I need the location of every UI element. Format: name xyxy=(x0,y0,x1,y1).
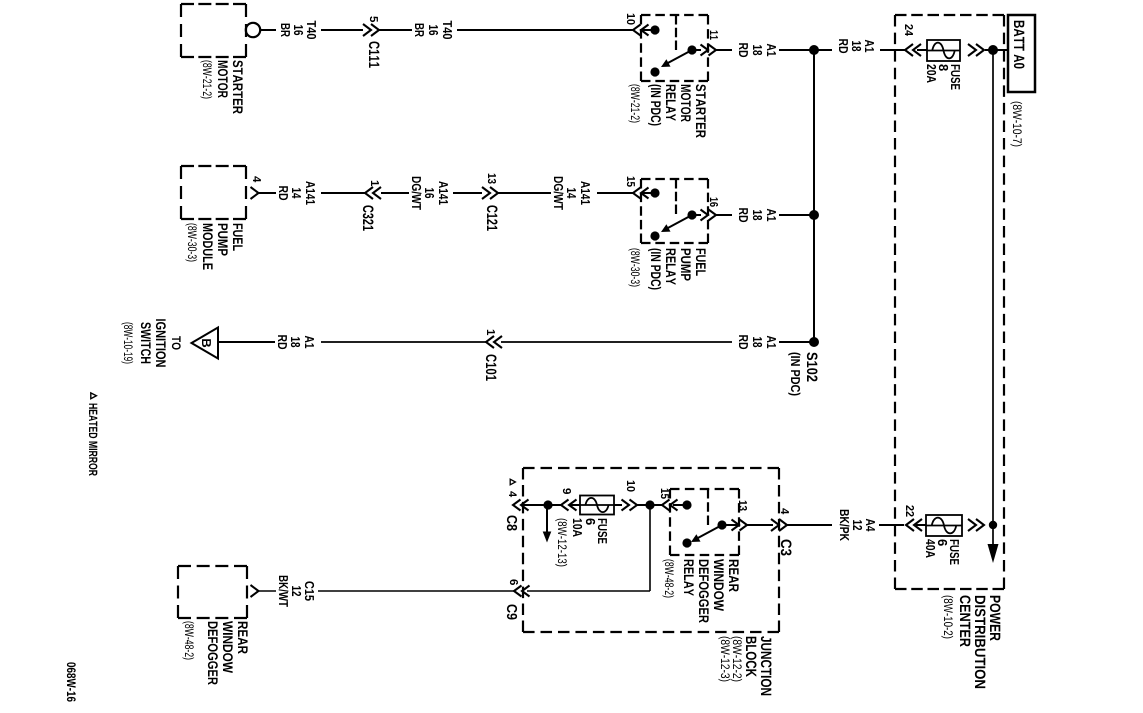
starter relay pin 10 chevron xyxy=(633,25,649,36)
fuel relay common node xyxy=(687,210,696,219)
defogger relay contact node pin 15 xyxy=(673,500,692,509)
power distribution center box (8W-10-2) xyxy=(895,15,1004,589)
starter relay pin 11 chevron xyxy=(701,45,717,56)
splice S102 node xyxy=(809,45,819,55)
label pin 4 fuel pump xyxy=(253,176,261,182)
wire BATT A0 stub to bus xyxy=(985,49,1007,51)
label wire T40 16 BR (mid) xyxy=(415,21,452,39)
connector C8 pin 4 chevron xyxy=(513,500,529,511)
starter relay contact node pin 10 xyxy=(641,25,660,34)
rear window defogger pin chevron xyxy=(251,585,259,597)
label C321 xyxy=(363,205,374,230)
starter motor box xyxy=(181,4,246,57)
label JUNCTION BLOCK xyxy=(718,636,771,695)
defogger relay pin 13 chevron xyxy=(732,520,748,531)
wire C111 to label T40 lower xyxy=(321,29,363,31)
label pin 1 of C101 xyxy=(487,330,495,335)
wire fuse 8 out of PDC xyxy=(880,49,905,51)
label pin 10 xyxy=(627,14,635,25)
wire label to C101 xyxy=(501,341,732,343)
wire fuse 6 to chevron 22 xyxy=(916,524,926,526)
node junction block splice xyxy=(645,500,654,509)
starter relay contact node right xyxy=(650,67,659,76)
label pin 16 xyxy=(710,198,718,207)
label STARTER MOTOR RELAY (IN PDC) (8W-21-2) xyxy=(628,84,705,138)
connector chevron 10 in JB xyxy=(622,500,638,511)
label wire A4 12 BK/PK xyxy=(840,510,875,541)
wire label to starter motor terminal xyxy=(260,29,276,31)
label FUSE 8 20A xyxy=(927,64,960,89)
bus arrowhead xyxy=(988,544,999,563)
battery feed BATT A0 box xyxy=(1008,15,1035,92)
label wire A141 16 DG/WT xyxy=(412,177,448,210)
label pin 1 of C321 xyxy=(371,181,379,186)
wire S102 bus xyxy=(813,50,815,342)
junction block box (8W-12-2)(8W-12-3) xyxy=(523,468,779,632)
label pin 22 xyxy=(906,505,914,516)
wire BATT A0 bus xyxy=(992,50,994,548)
node bus junction at fuse 6 xyxy=(989,521,997,529)
label pin 4 of C3 xyxy=(781,508,789,514)
heated mirror branch wire xyxy=(546,505,548,532)
node bus junction at fuse 8 xyxy=(988,45,998,55)
label FUEL PUMP MODULE (8W-30-3) xyxy=(185,224,242,270)
label STARTER MOTOR (8W-21-2) xyxy=(200,60,242,114)
connector pin 24 chevron xyxy=(905,44,921,56)
fuel pump relay box xyxy=(641,179,708,243)
label POWER DISTRIBUTION CENTER xyxy=(941,596,1000,689)
defogger relay contact node right xyxy=(682,538,691,547)
wire S102 to fuel label xyxy=(779,214,814,216)
wire chevron 9 to C8 node xyxy=(548,504,561,506)
node S102 ignition branch xyxy=(809,337,819,347)
legend triangle HEATED MIRROR xyxy=(89,393,98,476)
connector C101 chevron xyxy=(486,336,502,348)
wire C8 node to C8 xyxy=(521,504,548,506)
label wire C15 12 BK/WT xyxy=(279,576,314,607)
fuse F8 output chevron xyxy=(968,44,984,56)
wire label to fuel pump module pin xyxy=(259,192,276,194)
node C8 branch splice xyxy=(543,500,552,509)
label C111 xyxy=(369,42,380,68)
label pin 15 fuel relay xyxy=(627,177,635,187)
fuel relay pin 16 chevron xyxy=(701,210,717,221)
label wire A141 14 RD xyxy=(279,181,315,205)
fuel relay contact node pin 15 xyxy=(641,188,660,197)
label C8 xyxy=(507,516,517,531)
label chevron 9 xyxy=(563,488,571,494)
fuel pump module pin 4 chevron xyxy=(251,187,259,199)
label pin 5 of C111 xyxy=(370,16,378,22)
connector C3 pin 4 chevron xyxy=(771,519,787,531)
node S102 fuel branch xyxy=(809,210,819,220)
label sheet number 068W-16 xyxy=(67,662,76,701)
wire fuse JB to chevron 9 xyxy=(569,504,580,506)
starter relay common node xyxy=(687,45,696,54)
fuse F6 junction block (FUSE 6 10A) xyxy=(580,496,614,515)
wire fuse 8 to chevron 24 xyxy=(917,49,927,51)
label wire A1 18 RD starter branch xyxy=(739,43,776,57)
wire A4 to C3 xyxy=(787,524,832,526)
wire C9 down to label C15 xyxy=(318,590,514,592)
wire pin 16 up to label xyxy=(716,214,732,216)
defogger relay blade xyxy=(691,525,722,542)
label FUEL PUMP RELAY (IN PDC) (8W-30-3) xyxy=(628,249,705,290)
label pin 24 xyxy=(905,24,913,36)
label wire T40 16 BR (lower) xyxy=(281,21,316,39)
label FUSE 6 40A xyxy=(926,539,959,564)
connector pin 22 chevron xyxy=(906,519,922,531)
fuel relay pin 15 chevron xyxy=(633,188,649,199)
label pin 13 xyxy=(739,501,747,511)
defogger relay common node xyxy=(717,520,739,529)
defogger relay internal divider xyxy=(707,489,709,525)
label S102 (IN PDC) xyxy=(788,352,817,395)
wire pin 11 into relay xyxy=(692,49,701,51)
wire pin 16 into relay xyxy=(692,214,701,216)
wire junction splice to C9 riser xyxy=(527,505,650,591)
wire label to C121 xyxy=(498,192,551,194)
wire pin 15 to junction node xyxy=(650,504,662,506)
fuel relay contact node right xyxy=(650,231,659,240)
wire C321 to label A141 14 RD xyxy=(321,192,365,194)
fuel pump relay internal divider xyxy=(675,179,677,214)
wire C101 to label xyxy=(321,341,486,343)
label pin 15 xyxy=(661,489,669,499)
wire label to triangle B xyxy=(218,341,275,343)
label REAR WINDOW DEFOGGER RELAY (8W-48-2) xyxy=(662,559,738,623)
wire label to C111 xyxy=(379,29,412,31)
off-page triangle B to ignition switch xyxy=(192,328,219,359)
label C9 xyxy=(507,605,517,620)
label chevron 10 xyxy=(627,481,635,492)
wire pin 15 down to label A141 14 DG/WT xyxy=(597,192,633,194)
label pin 6 of C9 xyxy=(510,579,518,585)
label wire A141 14 DG/WT xyxy=(554,177,590,210)
connector chevron 9 in JB xyxy=(561,500,577,511)
defogger relay pin 15 chevron xyxy=(662,500,678,511)
label C101 xyxy=(486,355,497,381)
label wire A1 18 RD ignition branch xyxy=(739,335,776,349)
rear window defogger box xyxy=(178,566,247,618)
wire C3 to defogger relay pin 13 xyxy=(747,524,773,526)
label pin 13 of C121 xyxy=(488,174,496,184)
label FUSE 6 10A (8W-12-13) xyxy=(555,519,607,567)
wire chevron 10 to splice xyxy=(637,504,650,506)
heated mirror branch arrowhead xyxy=(543,532,552,543)
wire A1 to splice S102 xyxy=(814,49,832,51)
label C121 xyxy=(487,205,498,230)
connector C321 chevron xyxy=(365,187,381,199)
label TO IGNITION SWITCH (8W-10-19) xyxy=(121,319,180,367)
label pin 11 xyxy=(710,31,718,40)
wire fuse 6 out of PDC xyxy=(879,524,904,526)
label REAR WINDOW DEFOGGER (8W-48-2) xyxy=(182,621,247,685)
rear window defogger relay box xyxy=(670,489,739,555)
connector C9 pin 6 chevron xyxy=(514,586,530,597)
label wire A1 18 RD fuel branch xyxy=(739,208,776,222)
connector C121 chevron xyxy=(482,187,498,199)
fuse F6 output chevron xyxy=(968,519,984,531)
fuse F6 (FUSE 6 40A) xyxy=(926,515,962,536)
wire label to C321 xyxy=(381,192,409,194)
label wire A1 18 RD at ignition switch xyxy=(278,335,314,349)
wire S102 to starter label xyxy=(779,49,814,51)
starter motor ring terminal xyxy=(246,23,260,37)
wire label to defogger pin xyxy=(259,590,276,592)
starter relay internal divider xyxy=(675,15,677,50)
label wire A1 18 RD (upper) xyxy=(839,39,874,53)
fuse F8 (FUSE 8 20A) xyxy=(927,40,960,61)
starter relay blade xyxy=(661,50,692,67)
wire chevron 10 to fuse 6 JB xyxy=(614,504,622,506)
wire C121 to label A141 16 DG/WT xyxy=(453,192,482,194)
fuel pump module box xyxy=(181,166,246,219)
wire pin 10 down to label T40 xyxy=(457,29,633,31)
label (8W-10-7) xyxy=(1010,102,1022,147)
label C3 xyxy=(781,540,792,556)
wire S102 to ignition label xyxy=(779,341,814,343)
wire pin 11 up to label xyxy=(716,49,732,51)
connector C111 chevron xyxy=(363,24,379,36)
label triangle note 4 at C8 xyxy=(509,479,517,497)
fuel relay blade xyxy=(661,215,692,232)
starter motor relay box xyxy=(641,15,708,81)
